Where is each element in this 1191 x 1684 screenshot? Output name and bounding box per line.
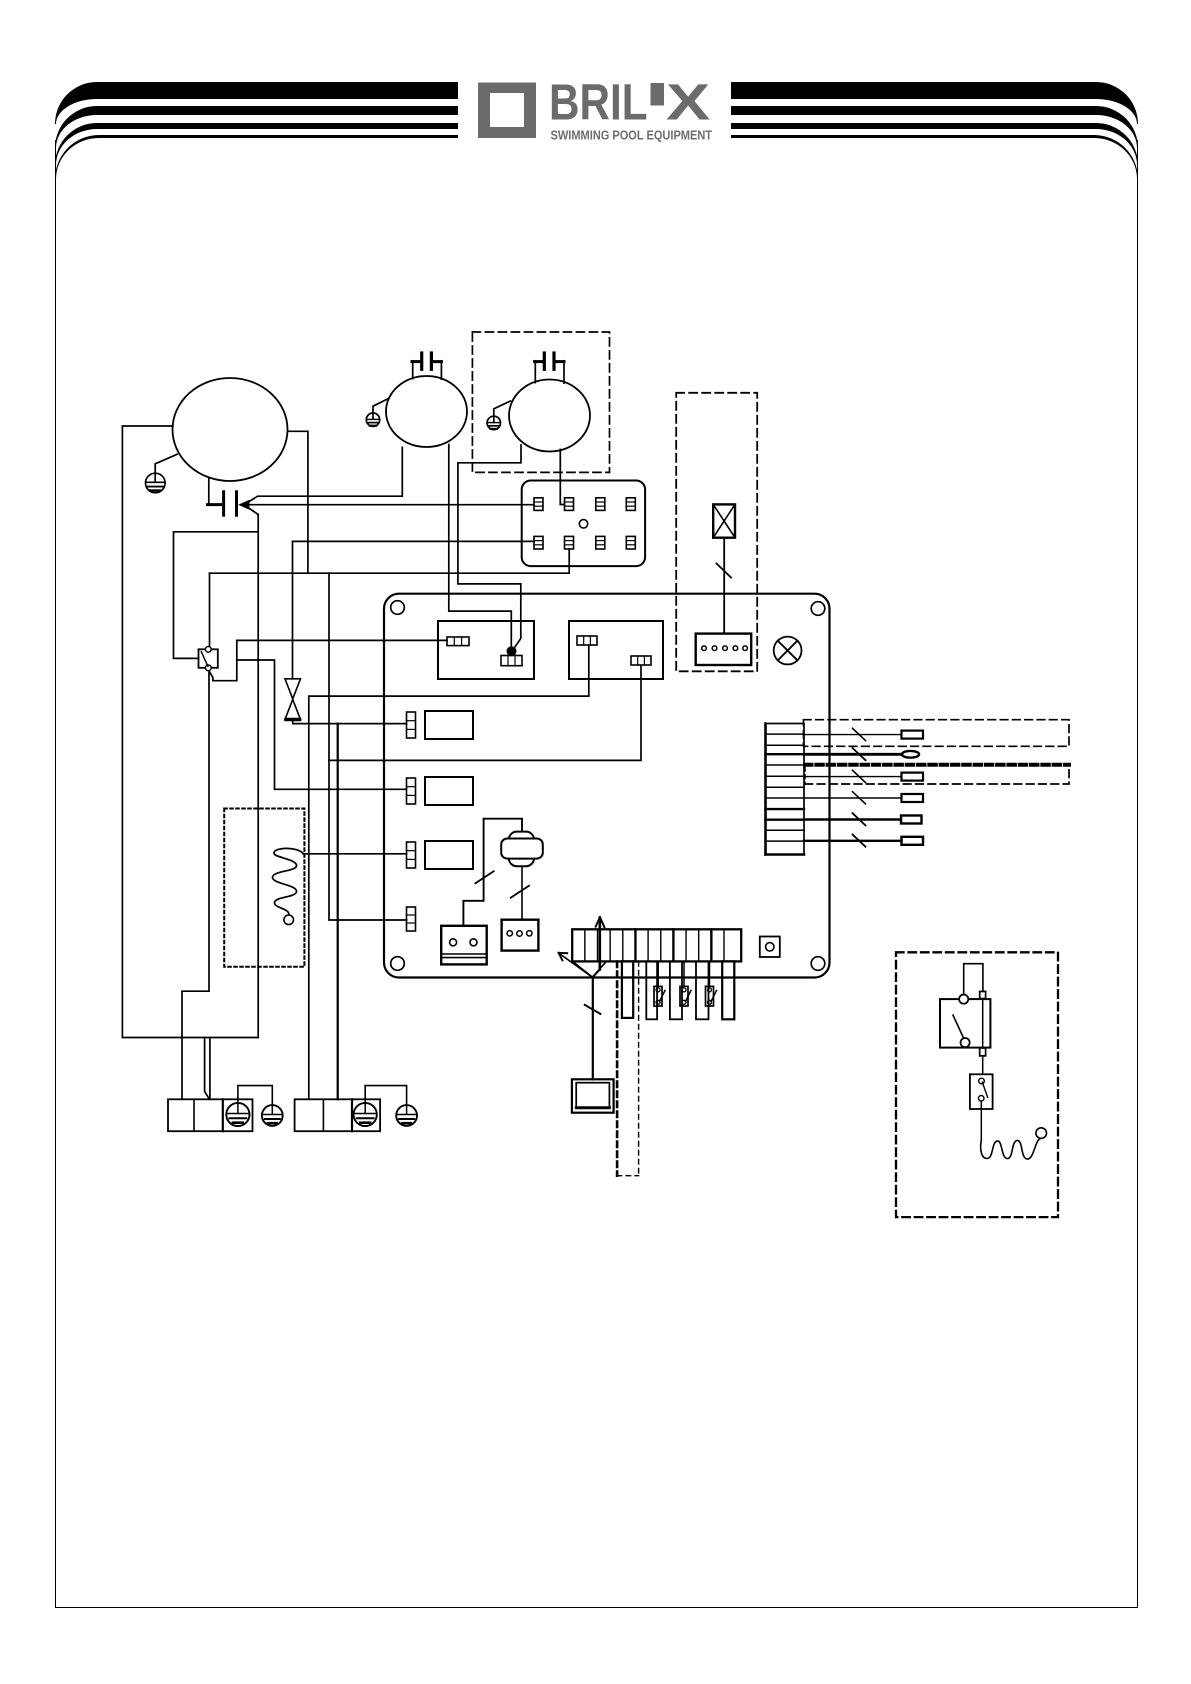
dashed enclosure around T1 and J1 bbox=[676, 393, 757, 672]
run capacitor C3 of fan motor M3 bbox=[535, 353, 564, 383]
fuse link 1 bbox=[654, 961, 665, 1006]
compressor motor M1 bbox=[173, 378, 288, 481]
PCB mounting hole bottom-left bbox=[391, 957, 405, 971]
wire: F1 top lead bbox=[463, 819, 522, 926]
block1 lower connector bbox=[501, 656, 522, 666]
decorative top stripe 1 bbox=[55, 82, 1138, 124]
thermostat switch body bbox=[940, 995, 990, 1048]
socket pin B4 bbox=[626, 536, 635, 549]
block1 solder node bbox=[507, 646, 517, 656]
capillary bottom terminal bbox=[980, 1048, 986, 1056]
fan motor M2 bbox=[386, 376, 467, 447]
socket pin A4 bbox=[626, 498, 635, 511]
run capacitor C2 of fan motor M2 bbox=[412, 353, 441, 379]
terminal block X1 bbox=[168, 1099, 253, 1131]
wire: capillary to micro switch bbox=[982, 1056, 984, 1074]
switch blade slash 1 bbox=[475, 871, 493, 883]
hanging cable sleeve 4 bbox=[696, 961, 709, 1019]
ring terminal wire 2 bbox=[902, 751, 919, 758]
hanging cable sleeve 3 bbox=[670, 961, 682, 1019]
slash on display cable bbox=[585, 1005, 601, 1014]
BRILIX logo square bbox=[478, 83, 536, 139]
wire: M2 bottom-right to PCB block1 node bbox=[449, 445, 512, 649]
wire: arrow node to relay socket pin A1 bbox=[247, 504, 534, 506]
wire: valve top to socket pin B1 bbox=[293, 541, 534, 678]
component box A (2-pole) bbox=[441, 926, 487, 965]
socket pin B3 bbox=[596, 536, 605, 549]
ground symbol of M2 bbox=[366, 398, 389, 426]
PCB terminal block1 bbox=[438, 621, 534, 679]
slash on wire 6 bbox=[853, 835, 866, 847]
ladder wire 5 (thick) bbox=[804, 818, 901, 820]
expansion valve V1 bbox=[285, 679, 301, 720]
wire: S1 bottom terminal down to terminal block X1 cell 1 bbox=[182, 671, 209, 1099]
fuse link 3 bbox=[706, 961, 717, 1006]
ground symbol of M3 bbox=[487, 401, 510, 430]
wire: left bus drops into terminal block X1 cell 2 bbox=[205, 1038, 210, 1100]
decorative top stripe 2 bbox=[55, 106, 1138, 148]
socket pin B1 bbox=[534, 536, 543, 549]
dashed cable outline 1 bbox=[804, 720, 1070, 747]
spade terminal wire 5 bbox=[901, 816, 922, 824]
wire: switch net to PCB relay input 2 bbox=[237, 660, 407, 789]
block2 left connector bbox=[577, 636, 597, 645]
ground symbol of M1 bbox=[146, 454, 178, 493]
slash on wire 4 bbox=[853, 792, 866, 804]
terminal block X2 bbox=[295, 1099, 381, 1131]
PCB relay RL2 bbox=[425, 777, 473, 805]
component box B (3-pole) bbox=[502, 920, 539, 951]
ladder wire 1 bbox=[804, 734, 902, 736]
svg-text:X: X bbox=[666, 73, 710, 131]
PCB output terminal strip bbox=[572, 929, 741, 961]
run capacitor C1 of compressor bbox=[208, 478, 237, 515]
X1 external earth symbol bbox=[262, 1105, 283, 1126]
PCB input connector 1 bbox=[407, 712, 416, 738]
page border frame bbox=[55, 140, 1138, 1608]
ladder wire 6 (thick) bbox=[804, 840, 902, 842]
PCB edge connector ladder bbox=[766, 724, 805, 855]
PCB jumper block bbox=[760, 937, 780, 958]
wire: F1 bottom lead bbox=[521, 866, 523, 920]
slash on wire 5 bbox=[853, 813, 866, 825]
hanging cable sleeve 5 bbox=[722, 961, 734, 1019]
socket pin A2 bbox=[565, 498, 574, 511]
fuse link 2 bbox=[680, 961, 691, 1006]
display unit bbox=[572, 1079, 614, 1112]
socket pin A3 bbox=[596, 498, 605, 511]
X1 earth terminal bbox=[226, 1103, 249, 1126]
switch blade slash 2 bbox=[511, 886, 529, 898]
wire: S1 left terminal loop bbox=[174, 532, 258, 659]
main PCB board bbox=[384, 594, 830, 978]
5-pin connector J1 bbox=[696, 634, 752, 665]
PCB mounting hole top-left bbox=[391, 601, 405, 615]
ladder wire 4 bbox=[804, 797, 902, 799]
display transformer T1 (box with X) bbox=[713, 504, 735, 537]
wire: PCB block2 left connector to terminal block X2 cell 1 bbox=[309, 646, 589, 1100]
thermostat top loop wire bbox=[964, 964, 983, 995]
X2 earth terminal bbox=[354, 1103, 377, 1126]
slash on wire 2 bbox=[853, 748, 866, 760]
slash on wire 1 bbox=[853, 728, 866, 740]
block1 left connector bbox=[447, 637, 469, 646]
wire: T1 to 5-pin connector bbox=[723, 538, 725, 634]
X2 earth jumper wire bbox=[365, 1086, 406, 1106]
socket pin A1 bbox=[534, 498, 543, 511]
defrost temperature sensor coil bbox=[272, 848, 303, 914]
svg-text:SWIMMING POOL EQUIPMENT: SWIMMING POOL EQUIPMENT bbox=[551, 129, 713, 143]
wire: branch from relay1 line down to terminal block X2 cell 2 bbox=[337, 724, 339, 1100]
isolation slash on T1 wire bbox=[717, 564, 732, 578]
arrow diagonal from cable junction bbox=[559, 953, 593, 978]
wire: micro switch to sensor coil bbox=[980, 1101, 982, 1140]
slash on wire 3 bbox=[853, 770, 866, 782]
pressure switch S1 bbox=[199, 646, 218, 670]
dashed cable outline 2 with bold dotted top bbox=[805, 765, 1069, 784]
wire: M1 left terminal to left bus bbox=[122, 426, 258, 1038]
X1 earth jumper wire bbox=[238, 1086, 272, 1106]
PCB input connector 2 bbox=[407, 778, 416, 804]
wire: M3 bottom-right to socket pin A2 bbox=[560, 450, 564, 505]
dashed enclosure bottom-right (thermostat unit) bbox=[896, 952, 1058, 1217]
micro switch bbox=[970, 1074, 993, 1109]
spade terminal wire 1 bbox=[902, 731, 924, 739]
wire: S1 top terminal up to control bus bbox=[209, 573, 211, 646]
wire: bus branch down to PCB relay output 4 bbox=[329, 573, 407, 920]
arrowhead pointing at C1 bbox=[238, 500, 249, 510]
hanging cable sleeve 2 bbox=[646, 961, 657, 1019]
spade terminal wire 3 bbox=[902, 773, 924, 781]
indicator lamp H1 bbox=[774, 637, 802, 665]
wire: left bus riser to capacitor arrow node bbox=[247, 507, 258, 1038]
decorative top stripe 4 bbox=[55, 135, 1138, 179]
wire: valve bottom to PCB relay input 1 bbox=[293, 720, 407, 724]
wire: S1 bottom elbow to PCB block1 left connector bbox=[209, 640, 447, 680]
socket pin B2 bbox=[565, 536, 574, 549]
dashed enclosure around fan motor M3 bbox=[472, 332, 609, 472]
wire: arrow node to M2 bottom-left bbox=[247, 447, 402, 503]
dotted enclosure around defrost sensor bbox=[224, 809, 304, 967]
svg-text:BRIL: BRIL bbox=[549, 74, 647, 131]
hanging cable sleeve 1 bbox=[622, 961, 633, 1018]
decorative top stripe 3 bbox=[55, 123, 1138, 165]
PCB relay RL3 bbox=[425, 841, 473, 869]
wire: temperature coil to PCB relay input 3 bbox=[304, 853, 407, 855]
wire: branch to PCB block2 right connector bbox=[329, 666, 641, 761]
capillary top terminal bbox=[980, 991, 986, 998]
thermostat sensor coil bbox=[981, 1138, 1041, 1159]
relay socket K1 bbox=[522, 481, 645, 567]
PCB input connector 4 bbox=[407, 907, 416, 931]
PCB relay RL1 bbox=[425, 711, 473, 739]
tall dashed cable outline below strip bbox=[617, 962, 639, 1176]
spade terminal wire 4 bbox=[902, 794, 924, 802]
wire: M3 bottom-left to PCB block1 node bbox=[458, 445, 521, 649]
block2 right connector bbox=[631, 656, 651, 665]
wire: M1 right terminal down to control bus bbox=[288, 431, 308, 573]
PCB input connector 3 bbox=[407, 842, 416, 868]
ladder wire 2 (thick) bbox=[804, 753, 902, 756]
capillary tube bbox=[982, 999, 984, 1048]
thermostat sensor bulb bbox=[1036, 1128, 1047, 1139]
BRILIX logo text bbox=[549, 73, 713, 143]
X2 external earth symbol bbox=[396, 1105, 417, 1126]
PCB mounting hole top-right bbox=[811, 602, 825, 616]
wire: horizontal control bus to socket pin B2 stub bbox=[210, 549, 570, 573]
wire: second drop into X1 cell 2 bbox=[209, 1038, 211, 1100]
PCB terminal block2 bbox=[569, 621, 663, 679]
spade terminal wire 6 bbox=[902, 837, 924, 845]
ladder wire 3 bbox=[804, 776, 902, 778]
arrow up from cable junction bbox=[573, 917, 606, 977]
fan motor M3 bbox=[509, 380, 590, 452]
wire: controller display cable bbox=[592, 977, 594, 1079]
sensor bulb bbox=[284, 915, 294, 925]
transformer / fuse holder F1 bbox=[501, 832, 543, 867]
PCB mounting hole bottom-right bbox=[811, 957, 825, 971]
